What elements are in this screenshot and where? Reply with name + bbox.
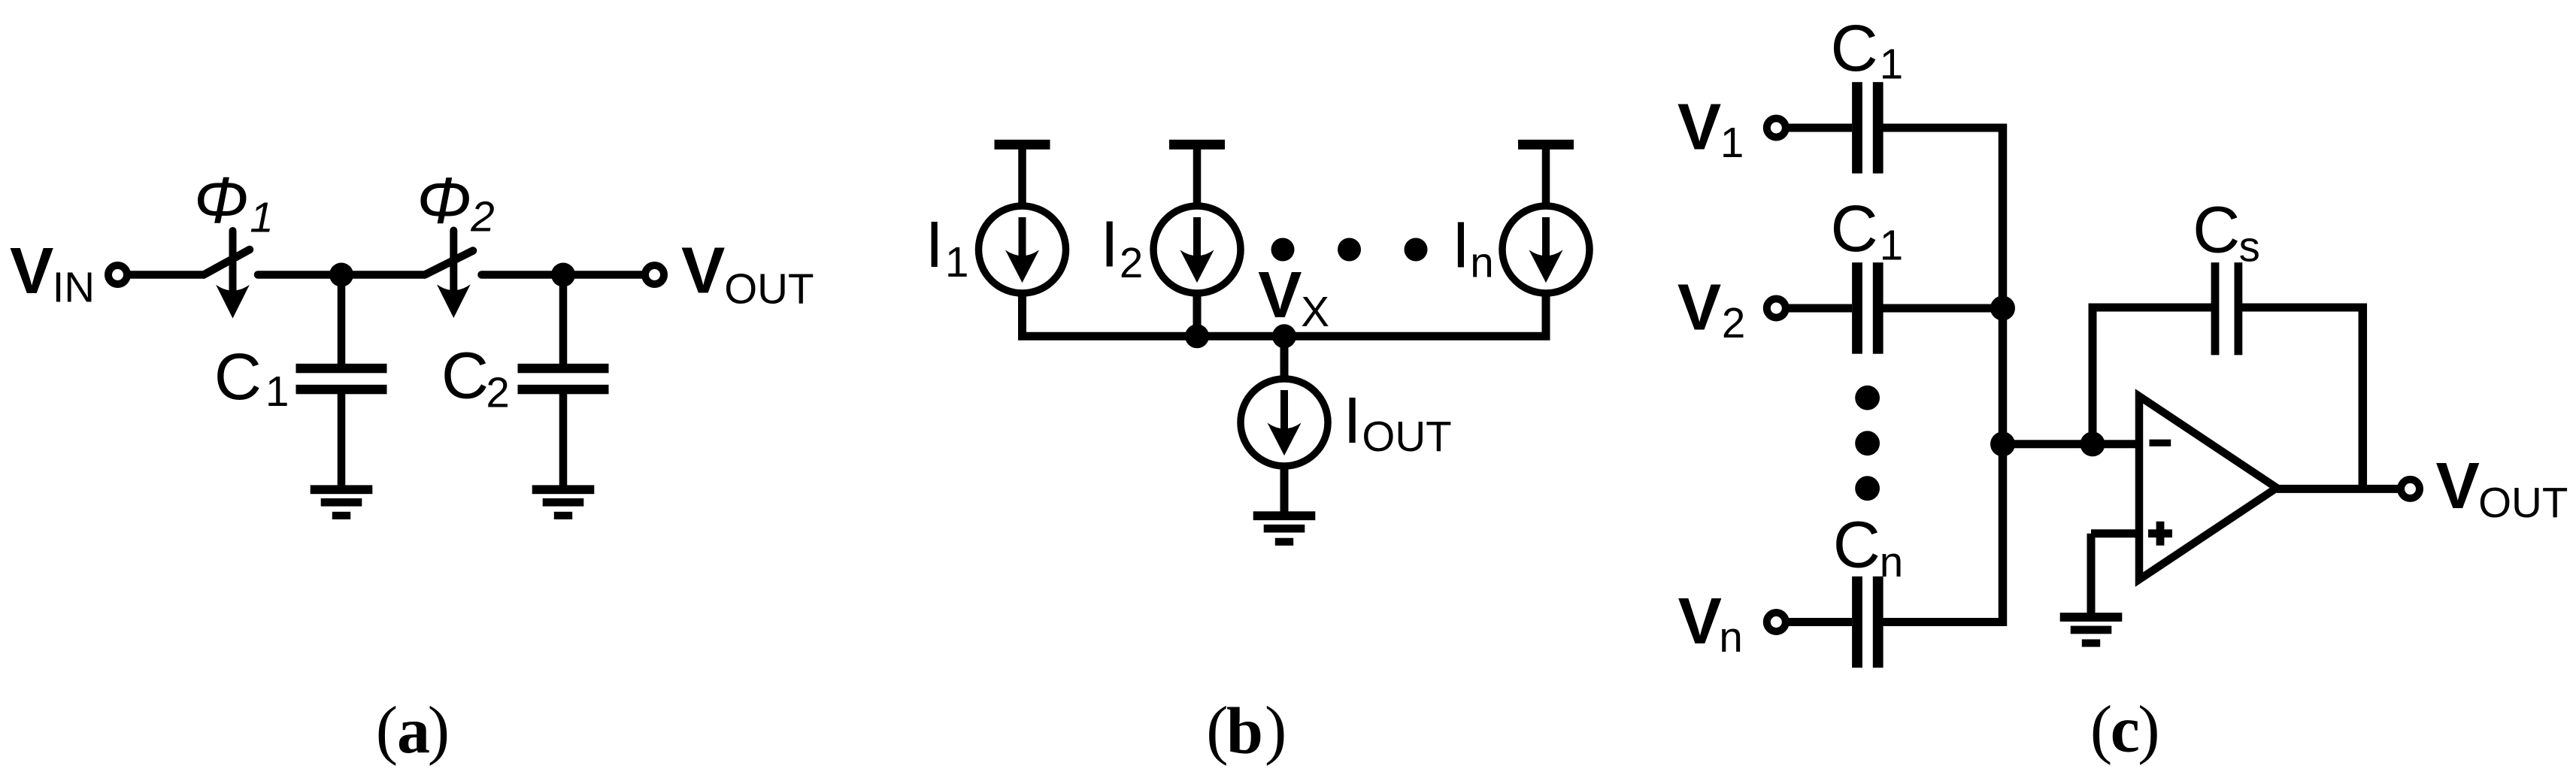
- svg-text:C: C: [214, 340, 262, 413]
- svg-text:V: V: [2436, 449, 2480, 522]
- svg-text:C: C: [441, 339, 489, 413]
- svg-text:C: C: [2193, 193, 2240, 267]
- svg-text:(: (: [1206, 694, 1228, 767]
- svg-text:I: I: [1101, 207, 1119, 281]
- svg-text:2: 2: [1120, 239, 1143, 286]
- svg-text:b: b: [1226, 695, 1263, 767]
- svg-text:n: n: [1880, 538, 1903, 586]
- svg-text:C: C: [1833, 508, 1880, 582]
- svg-text:1: 1: [265, 368, 289, 415]
- svg-text:I: I: [1343, 383, 1361, 457]
- svg-text:V: V: [1258, 258, 1302, 331]
- svg-text:OUT: OUT: [724, 265, 814, 312]
- svg-text:X: X: [1301, 288, 1329, 335]
- svg-text:n: n: [1470, 238, 1493, 286]
- svg-text:(: (: [376, 694, 398, 767]
- svg-text:OUT: OUT: [1362, 413, 1451, 460]
- svg-text:Φ: Φ: [194, 163, 249, 237]
- svg-text:2: 2: [470, 193, 494, 241]
- svg-text:C: C: [1831, 192, 1878, 265]
- svg-text:s: s: [2239, 223, 2260, 271]
- svg-text:a: a: [397, 695, 430, 767]
- svg-text:): ): [2138, 693, 2159, 766]
- svg-text:1: 1: [945, 238, 968, 286]
- svg-text:C: C: [1831, 11, 1878, 85]
- svg-text:2: 2: [1722, 299, 1745, 347]
- svg-text:1: 1: [250, 194, 273, 241]
- svg-text:n: n: [1719, 613, 1742, 661]
- svg-text:1: 1: [1720, 119, 1744, 166]
- svg-text:V: V: [1677, 270, 1721, 344]
- svg-text:1: 1: [1880, 41, 1903, 88]
- svg-text:I: I: [926, 207, 944, 281]
- svg-text:): ): [428, 694, 450, 767]
- svg-text:c: c: [2111, 694, 2140, 767]
- svg-text:V: V: [1678, 584, 1722, 658]
- svg-text:(: (: [2090, 693, 2112, 766]
- svg-text:V: V: [681, 233, 725, 307]
- svg-text:2: 2: [486, 368, 509, 416]
- svg-text:OUT: OUT: [2478, 479, 2568, 526]
- svg-text:I: I: [1452, 208, 1470, 282]
- svg-text:V: V: [1677, 89, 1721, 163]
- svg-text:V: V: [10, 234, 53, 307]
- svg-text:): ): [1265, 694, 1286, 767]
- svg-text:Φ: Φ: [417, 163, 471, 237]
- svg-text:IN: IN: [53, 264, 95, 311]
- svg-text:1: 1: [1880, 222, 1903, 269]
